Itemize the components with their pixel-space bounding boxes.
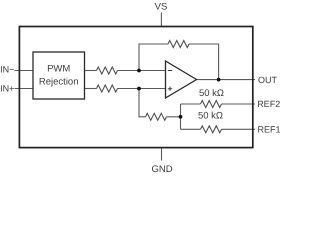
wire op-amp output to OUT pin (197, 79, 256, 81)
svg-text:REF1: REF1 (258, 124, 281, 134)
junction dot output node (217, 78, 221, 82)
resistor 50 kOhm (REF1) (201, 126, 222, 133)
svg-text:Rejection: Rejection (39, 77, 79, 88)
resistor 50 kOhm (REF2) (201, 101, 222, 108)
wire feedback to output node (189, 44, 219, 80)
svg-text:REF2: REF2 (257, 99, 280, 109)
junction dot divider mid node (179, 115, 183, 119)
wire divider rail (180, 104, 182, 129)
svg-text:PWM: PWM (47, 64, 70, 75)
PWM Rejection block (33, 52, 85, 99)
wire R4 to divider rail (167, 116, 181, 118)
svg-text:VS: VS (155, 1, 168, 12)
svg-text:GND: GND (151, 164, 172, 175)
wire GND pin (161, 147, 163, 161)
wire rail to 50k REF2 resistor (181, 103, 201, 105)
resistor R1 (IN- path) (97, 67, 118, 74)
resistor R2 (IN+ path) (97, 85, 118, 92)
resistor R4 (to reference divider) (146, 113, 167, 120)
wire R2 to op-amp non-inverting input (118, 88, 166, 90)
wire feedback up and across (139, 44, 168, 71)
svg-text:IN+: IN+ (0, 83, 14, 93)
junction dot non-inverting node (137, 87, 141, 91)
junction dot inverting node (137, 69, 141, 73)
svg-text:IN−: IN− (0, 65, 14, 75)
resistor R3 (feedback) (168, 41, 189, 48)
wire IN+ node down to R4 (139, 89, 146, 117)
svg-text:50 kΩ: 50 kΩ (198, 111, 223, 122)
wire VS supply pin (160, 13, 162, 28)
op-amp U1 (166, 61, 197, 98)
wire PWM block to R1 (85, 70, 97, 72)
svg-text:OUT: OUT (258, 75, 278, 85)
wire IN+ lead (15, 88, 34, 90)
wire 50k resistor to REF1 pin (222, 128, 256, 130)
outer device boundary box (19, 27, 252, 148)
svg-text:50 kΩ: 50 kΩ (199, 88, 224, 99)
wire 50k resistor to REF2 pin (222, 103, 256, 105)
wire R1 to op-amp inverting input (118, 70, 166, 72)
wire rail to 50k REF1 resistor (181, 128, 201, 130)
wire PWM block to R2 (85, 88, 97, 90)
wire IN- lead (15, 70, 34, 72)
